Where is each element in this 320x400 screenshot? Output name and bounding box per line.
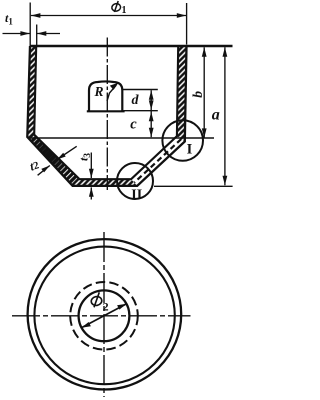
svg-text:2: 2 <box>103 300 109 314</box>
dimension a line with arrows <box>223 47 228 185</box>
detail circle I <box>162 120 203 161</box>
section hatch fill right wall <box>177 46 187 142</box>
top rim line <box>30 45 233 47</box>
bend level extension line <box>29 137 214 139</box>
radius R leader arrow <box>107 83 119 101</box>
cup inner profile line <box>34 46 178 179</box>
section hatch fill (left wall, left diagonal, bottom plate) <box>27 46 137 186</box>
svg-text:a: a <box>212 107 220 124</box>
punch dome profile <box>87 81 125 111</box>
svg-text:c: c <box>130 117 137 133</box>
bottom view outer circle <box>28 239 182 389</box>
dimension c arrows <box>149 112 154 137</box>
dimension d line with arrows <box>149 90 154 137</box>
d bottom extension line <box>124 110 158 112</box>
svg-text:R: R <box>94 84 104 99</box>
bottom view vertical centerline <box>103 232 105 397</box>
bottom view wall inner circle <box>34 247 174 385</box>
dimension phi2 diameter arrow <box>81 304 126 328</box>
phi1 left extension line <box>29 3 31 46</box>
dimension t1 arrows <box>3 31 61 36</box>
svg-text:1: 1 <box>122 5 127 16</box>
cup outer profile line <box>27 46 186 186</box>
bottom view dashed bend circle <box>70 282 138 350</box>
dimension b line with arrows <box>202 47 207 138</box>
t1 right extension line <box>36 25 38 46</box>
phi1 right extension line <box>186 3 188 45</box>
label phi1 <box>111 1 126 16</box>
label phi2 <box>90 292 108 313</box>
vertical centerline of section <box>106 38 108 191</box>
dimension t2 arrows <box>38 146 77 175</box>
bottom view flat-bottom circle <box>79 290 130 341</box>
svg-text:b: b <box>190 91 205 98</box>
svg-text:d: d <box>132 93 140 108</box>
dimension phi1 line with arrows <box>31 13 186 18</box>
a bottom extension line <box>154 185 233 187</box>
d top extension line <box>122 89 158 91</box>
svg-text:II: II <box>131 188 142 203</box>
bottom view horizontal centerline <box>12 315 191 317</box>
detail circle II <box>117 163 153 199</box>
right diagonal hatch core stripe <box>134 139 181 183</box>
svg-text:I: I <box>187 142 193 158</box>
dimension t3 arrows <box>89 153 94 200</box>
